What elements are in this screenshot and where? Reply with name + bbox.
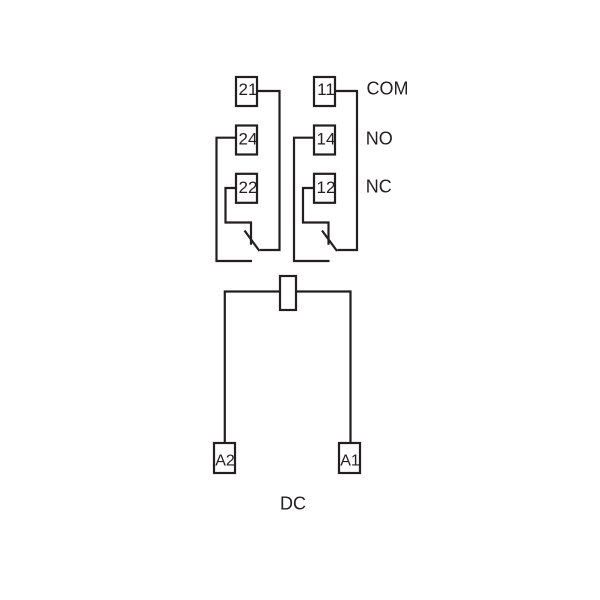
svg-text:22: 22 — [239, 178, 258, 197]
svg-text:NC: NC — [366, 177, 392, 197]
coil U1 — [280, 276, 296, 310]
svg-text:24: 24 — [239, 130, 258, 149]
terminal box A2 — [214, 443, 235, 473]
svg-text:COM: COM — [367, 79, 409, 99]
svg-text:DC: DC — [280, 494, 306, 514]
wire 14 to NO fixed contact — [294, 138, 330, 261]
wire 24 to NO fixed contact — [217, 138, 253, 261]
svg-text:12: 12 — [317, 178, 336, 197]
svg-text:14: 14 — [317, 130, 336, 149]
terminal box A1 — [339, 443, 360, 473]
switch blade pole 2 — [245, 231, 260, 252]
svg-text:11: 11 — [317, 80, 335, 99]
svg-text:A2: A2 — [215, 452, 235, 469]
svg-text:21: 21 — [239, 80, 258, 99]
terminal box 12 — [314, 174, 335, 203]
terminal box 14 — [314, 126, 335, 155]
terminal box 24 — [236, 126, 257, 155]
terminal box 11 — [314, 77, 335, 106]
switch blade pole 1 — [322, 231, 337, 252]
wire 22 to NC fixed contact — [226, 188, 252, 245]
terminal box 21 — [236, 77, 257, 106]
wire coil to A1 — [296, 292, 351, 444]
wire 11 to common contact — [335, 91, 357, 250]
svg-text:NO: NO — [366, 129, 393, 149]
wire 12 to NC fixed contact — [303, 188, 329, 245]
terminal box 22 — [236, 174, 257, 203]
wire coil to A2 — [225, 292, 280, 444]
wire 21 to common contact — [257, 91, 280, 250]
svg-text:A1: A1 — [340, 452, 360, 469]
